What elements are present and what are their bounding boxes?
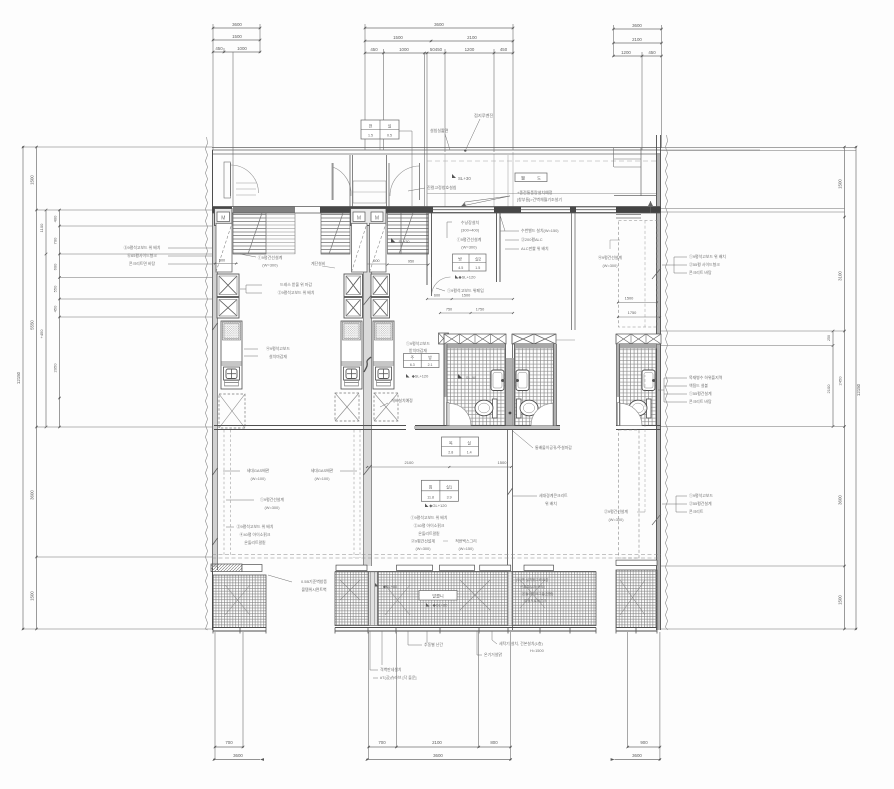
bathroom B (right unit) (515, 344, 554, 426)
svg-text:1500: 1500 (462, 294, 470, 298)
bottom-left dims (214, 632, 216, 760)
svg-text:(W=100): (W=100) (250, 476, 266, 481)
svg-text:1500: 1500 (30, 591, 35, 601)
svg-text:4.5: 4.5 (458, 266, 463, 270)
svg-text:②9평석고보드 위 배치: ②9평석고보드 위 배치 (278, 290, 315, 295)
living-room east party wall (507, 430, 509, 566)
corridor north wall double line (212, 147, 661, 149)
bedroom2 east wall (496, 213, 498, 282)
svg-text:1200: 1200 (465, 47, 475, 52)
svg-text:550: 550 (53, 285, 58, 292)
svg-text:[창부들]>간벽체월기조설기: [창부들]>간벽체월기조설기 (517, 196, 562, 202)
left strip duct X-boxes (217, 274, 239, 297)
svg-text:3600: 3600 (632, 753, 642, 758)
svg-text:콘크리트 바탕: 콘크리트 바탕 (689, 270, 712, 275)
bottom-right dims (627, 632, 629, 747)
right strip dashed shaft (619, 221, 658, 328)
svg-text:①9평석고보드: ①9평석고보드 (689, 493, 713, 498)
bedroom2 door arc (432, 277, 451, 296)
center stair shafts (352, 223, 368, 272)
top-left extension lines (212, 24, 214, 52)
svg-text:(W=300): (W=300) (602, 263, 618, 268)
svg-text:⑤9평석고보드 위 배치: ⑤9평석고보드 위 배치 (124, 245, 161, 250)
bath AD band with X cells (444, 334, 506, 344)
svg-text:450: 450 (370, 47, 378, 52)
svg-text:#T(공)슈라브 [닥 돌운]: #T(공)슈라브 [닥 돌운] (380, 675, 417, 680)
svg-text:(W=300): (W=300) (262, 263, 278, 268)
svg-text:④9평건선설계: ④9평건선설계 (598, 255, 622, 260)
svg-text:50450: 50450 (430, 47, 443, 52)
left strip kitchen column (221, 321, 242, 389)
svg-text:③200평ALC: ③200평ALC (521, 237, 543, 242)
center unit large X-box (374, 393, 398, 421)
svg-text:950: 950 (408, 260, 414, 264)
svg-text:목재병수 하위플지역: 목재병수 하위플지역 (689, 375, 723, 380)
far-left party wall (212, 150, 214, 630)
svg-text:H=1500: H=1500 (530, 648, 545, 653)
left-neighbor kitchen column (341, 321, 362, 389)
left strip entry door (230, 163, 232, 196)
svg-text:3600: 3600 (434, 22, 444, 27)
svg-text:1500: 1500 (232, 34, 242, 39)
svg-text:SL-90: SL-90 (466, 376, 476, 380)
note: SL+30 (452, 174, 456, 178)
far-right unit wall (657, 153, 661, 630)
svg-text:2100: 2100 (632, 37, 642, 42)
center M meter boxes (351, 209, 387, 226)
svg-text:450: 450 (500, 47, 508, 52)
svg-text:12150: 12150 (16, 371, 21, 384)
svg-text:M: M (221, 216, 225, 222)
top-center dimension group (365, 27, 513, 29)
svg-text:(W=300): (W=300) (264, 505, 280, 510)
svg-text:2100: 2100 (405, 460, 415, 465)
svg-text:개바설치예정: 개바설치예정 (391, 398, 413, 403)
right section cut line (665, 135, 667, 630)
svg-text:도: 도 (537, 176, 541, 181)
svg-text:온돌테이크그꼺(전용): 온돌테이크그꼺(전용) (522, 591, 553, 596)
svg-text:(300+400): (300+400) (461, 228, 480, 233)
left-neighbor large X-box (335, 393, 359, 421)
svg-text:몰템위시면트벽: 몰템위시면트벽 (301, 587, 326, 592)
left strip M meter box (215, 209, 233, 226)
corridor inner line (427, 193, 657, 195)
svg-text:11.8: 11.8 (427, 495, 434, 499)
svg-text:3600: 3600 (232, 22, 242, 27)
left stair 500 dim (213, 263, 238, 265)
svg-text:0.5: 0.5 (387, 134, 392, 138)
svg-text:1.4: 1.4 (467, 451, 472, 455)
bathroom A (center unit) (447, 344, 506, 426)
svg-text:400: 400 (53, 215, 58, 222)
svg-text:SL+30: SL+30 (398, 240, 409, 244)
svg-text:2100: 2100 (467, 35, 477, 40)
left strip sill (211, 564, 242, 572)
svg-text:설치마감재: 설치마감재 (269, 354, 287, 359)
svg-text:3600: 3600 (838, 495, 843, 505)
right extension lines to plan (661, 146, 856, 148)
left strip stair treads (233, 213, 266, 254)
svg-text:1500: 1500 (838, 595, 843, 605)
left-neighbor duct X-boxes (344, 274, 363, 297)
svg-text:2100: 2100 (432, 740, 442, 745)
party wall hatch ticks (364, 465, 372, 475)
svg-text:250: 250 (827, 335, 831, 341)
svg-text:실: 실 (467, 440, 471, 446)
svg-text:2.1: 2.1 (428, 363, 433, 367)
vestibule label table (361, 120, 399, 139)
svg-text:수낭장설치: 수낭장설치 (461, 219, 480, 225)
svg-text:①9평건선설계: ①9평건선설계 (258, 254, 283, 260)
right strip sill (616, 560, 657, 565)
left stair break line (248, 213, 262, 254)
right strip small diagonal tick (652, 268, 661, 279)
bedroom2 label table (453, 254, 487, 271)
svg-text:700: 700 (378, 740, 386, 745)
living room label table (421, 480, 458, 501)
svg-text:1750: 1750 (476, 308, 484, 312)
svg-text:①55평건설계: ①55평건설계 (689, 391, 712, 396)
svg-text:방: 방 (458, 256, 462, 262)
top-left dimension group (213, 27, 260, 29)
svg-text:◆SL+120: ◆SL+120 (412, 374, 429, 379)
svg-text:1500: 1500 (30, 175, 35, 185)
svg-text:3600: 3600 (233, 753, 243, 758)
bedroom2 interior dims (427, 298, 513, 300)
right strip top closet stubs (614, 149, 641, 151)
svg-text:드레스 받울 위 마감: 드레스 받울 위 마감 (280, 282, 312, 287)
svg-text:12150: 12150 (856, 383, 861, 396)
party wall break mark (364, 357, 371, 372)
svg-text:수번밸드 설치(W=150): 수번밸드 설치(W=150) (521, 228, 559, 233)
svg-text:1.5: 1.5 (368, 134, 373, 138)
balcony party wall posts (369, 572, 378, 626)
svg-text:500: 500 (373, 259, 379, 263)
svg-text:액됨드 설볼: 액됨드 설볼 (689, 383, 708, 388)
bath partition walls (444, 344, 447, 397)
balcony floor grids (213, 575, 266, 628)
svg-text:②9평건선설계: ②9평건선설계 (604, 509, 628, 514)
right strip lower dashed zone (619, 430, 640, 558)
band top/bottom edges (212, 206, 661, 208)
left extension lines to plan (23, 146, 212, 148)
svg-text:M: M (357, 216, 361, 222)
svg-text:3.9: 3.9 (447, 495, 452, 499)
svg-text:5550: 5550 (30, 320, 35, 330)
balcony door sills with sliding panels (335, 571, 596, 573)
svg-text:③9평석고보드 위 배치: ③9평석고보드 위 배치 (237, 524, 274, 529)
svg-text:방: 방 (428, 355, 432, 360)
left-neighbor stair treads (321, 213, 350, 254)
svg-text:750: 750 (446, 308, 452, 312)
top-right dimension group (614, 28, 662, 30)
corridor label box (515, 173, 547, 182)
center unit kitchen column (373, 321, 394, 389)
svg-text:발콜니: 발콜니 (432, 593, 444, 600)
svg-text:실1: 실1 (446, 483, 453, 489)
svg-text:700: 700 (225, 740, 233, 745)
svg-text:법점드로와콘크: 법점드로와콘크 (524, 598, 547, 603)
entry vestibule walls (349, 155, 351, 207)
svg-text:적번백스그리: 적번백스그리 (455, 539, 477, 544)
svg-text:(W=300): (W=300) (415, 546, 431, 551)
gas pipe dashed lines (223, 430, 225, 556)
right strip diagonal tick lower (652, 514, 661, 525)
left stair shaft (216, 223, 232, 272)
svg-text:②9평건선설계: ②9평건선설계 (411, 539, 435, 544)
svg-text:②55평건설계: ②55평건설계 (689, 501, 712, 506)
balcony bottom edges (213, 627, 266, 629)
svg-text:SL+30: SL+30 (458, 176, 471, 181)
svg-text:900: 900 (640, 740, 648, 745)
svg-text:2050: 2050 (53, 363, 58, 373)
svg-text:점지루벤진: 점지루벤진 (474, 112, 493, 119)
svg-text:온기거설맑: 온기거설맑 (484, 652, 502, 657)
svg-text:(두)벽 설치위그리크감: (두)벽 설치위그리크감 (516, 577, 549, 582)
svg-text:M: M (375, 216, 379, 222)
mid wall right strip (616, 425, 661, 427)
dining label table (442, 437, 479, 456)
right unit bedroom wall (556, 339, 575, 341)
svg-text:실2: 실2 (475, 256, 482, 262)
balcony slope diagonals (340, 580, 360, 600)
left section cut line (205, 137, 207, 630)
svg-text:2.8: 2.8 (448, 451, 453, 455)
svg-text:◆GL+120: ◆GL+120 (429, 503, 447, 508)
svg-text:콘크리트 바탕: 콘크리트 바탕 (689, 399, 712, 404)
svg-text:1100: 1100 (39, 223, 44, 232)
svg-text:①9평석고보드 위페임: ①9평석고보드 위페임 (447, 287, 484, 293)
center unit entry door leaf and arc (419, 163, 421, 200)
svg-text:②55평 사이드형크: ②55평 사이드형크 (689, 262, 720, 267)
right dimension chains (855, 147, 857, 629)
center unit duct X-boxes (371, 274, 390, 297)
svg-text:계단설비: 계단설비 (311, 261, 326, 266)
bottom-center dims (368, 632, 370, 760)
svg-text:선홈통설치(국부): 선홈통설치(국부) (520, 584, 545, 589)
balcony mullion ticks bottom (212, 628, 214, 634)
svg-text:3600: 3600 (30, 490, 35, 500)
svg-text:2100: 2100 (826, 384, 831, 394)
svg-text:받치마감재: 받치마감재 (409, 348, 427, 353)
svg-text:450: 450 (53, 305, 58, 312)
center party wall (363, 213, 365, 566)
svg-text:(W=300): (W=300) (461, 245, 477, 250)
svg-text:②40평 아이소핅크: ②40평 아이소핅크 (414, 523, 445, 528)
svg-text:6.3: 6.3 (410, 363, 415, 367)
svg-text:실: 실 (388, 123, 392, 129)
svg-text:④40평 아이소핅크: ④40평 아이소핅크 (240, 532, 271, 537)
svg-text:①9평석고보드 위 배치: ①9평석고보드 위 배치 (689, 254, 726, 259)
bathroom C (right strip unit) (620, 344, 657, 426)
svg-text:1000: 1000 (399, 47, 409, 52)
svg-text:콘크리트: 콘크리트 (689, 509, 704, 514)
svg-text:450: 450 (215, 46, 223, 51)
entry threshold (353, 181, 386, 203)
mid horizontal wall center (415, 425, 560, 427)
svg-text:콘크리트면 바탕: 콘크리트면 바탕 (129, 261, 156, 266)
svg-text:설침실퐓면: 설침실퐓면 (430, 127, 449, 133)
upper dashed eave line (212, 554, 661, 556)
svg-text:1500: 1500 (498, 460, 508, 465)
svg-text:3600: 3600 (433, 753, 443, 758)
svg-text:(W=300): (W=300) (608, 517, 624, 522)
svg-text:◆SL+120: ◆SL+120 (459, 275, 477, 280)
svg-text:1200: 1200 (621, 50, 631, 55)
svg-text:ALC판쏼 위 배치: ALC판쏼 위 배치 (521, 246, 549, 251)
svg-text:1500: 1500 (838, 179, 843, 189)
svg-text:주: 주 (411, 355, 415, 360)
svg-text:세탁기 설치, 건본설치(1층): 세탁기 설치, 건본설치(1층) (499, 641, 543, 646)
svg-text:봻: 봻 (521, 175, 525, 182)
svg-text:1000: 1000 (237, 46, 247, 51)
svg-text:◆GL+80: ◆GL+80 (433, 603, 449, 608)
svg-text:전: 전 (369, 123, 373, 129)
left-neighbor unit entry door (332, 163, 334, 200)
svg-text:격벽판네설치: 격벽판네설치 (380, 667, 402, 672)
living room dim 2100/1500 (367, 466, 511, 468)
svg-text:1.5: 1.5 (475, 266, 480, 270)
window segments in band (433, 206, 494, 208)
svg-text:0.5B기준벽창증: 0.5B기준벽창증 (301, 579, 327, 584)
svg-text:통배물이공귀/주설마감: 통배물이공귀/주설마감 (535, 445, 572, 450)
svg-text:①9평건선설계: ①9평건선설계 (260, 497, 284, 502)
mid horizontal wall left strip (214, 425, 406, 427)
svg-text:800: 800 (490, 740, 498, 745)
svg-text:온돌리트말킽: 온돌리트말킽 (244, 540, 266, 545)
kitchen label table (404, 354, 440, 368)
svg-text:700: 700 (53, 237, 58, 244)
svg-text:침: 침 (429, 483, 433, 489)
svg-text:세대경계콘크리트: 세대경계콘크리트 (539, 493, 568, 498)
svg-text:500: 500 (219, 259, 225, 263)
svg-text:1500: 1500 (393, 35, 403, 40)
top-center extension lines (364, 24, 366, 53)
svg-text:2450: 2450 (838, 376, 843, 386)
left dimension chains (22, 147, 24, 629)
svg-text:1500: 1500 (625, 296, 634, 301)
svg-text:세대GAS배관: 세대GAS배관 (247, 468, 270, 473)
svg-text:3100: 3100 (838, 271, 843, 281)
svg-text:◆SL+80: ◆SL+80 (383, 584, 398, 589)
svg-text:④9평석고보드: ④9평석고보드 (266, 346, 290, 351)
bedroom2 west wall (426, 213, 428, 285)
svg-text:3600: 3600 (632, 23, 642, 28)
svg-text:+종전통풍량설치예정: +종전통풍량설치예정 (517, 189, 553, 195)
svg-text:450: 450 (648, 50, 656, 55)
svg-text:①9평석고보드: ①9평석고보드 (406, 341, 430, 346)
center unit stair treads (388, 213, 429, 254)
svg-text:(W=100): (W=100) (314, 476, 330, 481)
svg-text:600: 600 (53, 263, 58, 270)
right strip dims 1500/1750 (617, 302, 657, 304)
stair landing edge (321, 253, 350, 255)
small AD box left of band (439, 333, 449, 344)
svg-text:600: 600 (434, 294, 440, 298)
center stair dims 500 / 950 (367, 263, 386, 265)
right strip stair hatch under band (616, 213, 641, 219)
svg-text:온돌리트말킽: 온돌리트말킽 (418, 531, 440, 536)
heavy north wall band (212, 207, 232, 214)
svg-text:(W=150): (W=150) (458, 546, 474, 551)
svg-text:1750: 1750 (628, 310, 637, 315)
svg-text:+450: +450 (39, 329, 44, 339)
svg-text:세대GAS배관: 세대GAS배관 (311, 468, 334, 473)
svg-text:진컬고정창호설침: 진컬고정창호설침 (427, 184, 457, 190)
balcony label box (419, 591, 457, 601)
svg-text:위 배치: 위 배치 (545, 501, 557, 506)
svg-text:⑥65평사이드형크: ⑥65평사이드형크 (127, 253, 157, 258)
svg-text:①9평건선설계: ①9평건선설계 (457, 236, 482, 242)
left strip large X-box (219, 394, 245, 428)
svg-text:①9평석고보드 위 배치: ①9평석고보드 위 배치 (411, 515, 448, 520)
